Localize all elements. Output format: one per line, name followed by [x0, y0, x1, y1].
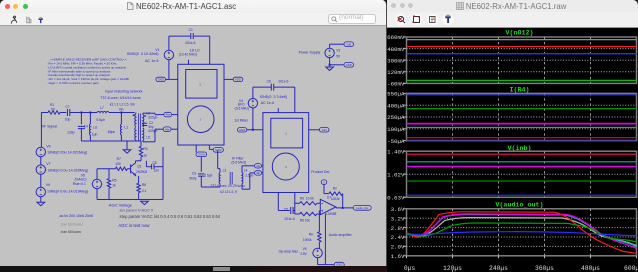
transistor Q1 [131, 161, 148, 176]
svg-text:0µs: 0µs [404, 265, 416, 272]
svg-text:Vdd: Vdd [322, 128, 327, 132]
svg-text:480mV: 480mV [387, 46, 405, 53]
svg-text:-Vagc > .6 VDC reduces receive: -Vagc > .6 VDC reduces receiver gain [48, 81, 99, 85]
wire [171, 128, 178, 130]
svg-text:0.1: 0.1 [142, 189, 147, 193]
svg-text:2.5µh: 2.5µh [204, 173, 212, 177]
svg-text:.tran 5000usec: .tran 5000usec [60, 223, 83, 227]
pane4 traces: V(audio_out) stepped family [407, 218, 637, 246]
wire [142, 141, 144, 142]
flag GND [156, 77, 166, 81]
resistor R2 [329, 187, 343, 202]
node junction [89, 112, 91, 114]
resistor R3 [295, 197, 317, 205]
svg-text:LM358: LM358 [327, 212, 337, 216]
flag node INb [163, 127, 171, 132]
svg-text:13n: 13n [153, 168, 159, 172]
svg-text:V: V [323, 182, 325, 184]
svg-text:-50µA: -50µA [387, 138, 405, 145]
svg-text:50: 50 [51, 108, 55, 112]
node junction [342, 207, 344, 209]
svg-text:R8: R8 [142, 183, 146, 187]
svg-text:20p: 20p [65, 118, 71, 122]
svg-text:300mV: 300mV [387, 57, 405, 64]
node junction [80, 112, 82, 114]
svg-text:SINE(0 .3 10.42e6): SINE(0 .3 10.42e6) [127, 52, 159, 56]
svg-text:R1: R1 [50, 103, 54, 107]
svg-text:660mV: 660mV [387, 34, 405, 41]
svg-text:1000k: 1000k [331, 197, 340, 201]
inductor L7 [97, 106, 110, 122]
svg-text:.001e-6: .001e-6 [284, 217, 295, 221]
voltage source V5 [73, 169, 102, 189]
capacitor C1 [185, 28, 196, 45]
svg-text:C1: C1 [189, 28, 193, 32]
wire [140, 157, 142, 161]
inductor L6 [89, 113, 97, 142]
svg-text:(10.42 MHz): (10.42 MHz) [179, 53, 197, 57]
svg-text:.ac lin 200 10e6 20e6: .ac lin 200 10e6 20e6 [59, 214, 93, 218]
svg-text:L6: L6 [93, 126, 97, 130]
svg-text:3.6V: 3.6V [391, 206, 405, 213]
svg-text:C4: C4 [84, 124, 88, 128]
svg-text:T37-6 core; 4/14/14 turns: T37-6 core; 4/14/14 turns [100, 96, 141, 100]
svg-text:L1: L1 [124, 126, 128, 130]
wire [330, 64, 344, 66]
svg-text:R4: R4 [143, 147, 147, 151]
flag node INc [255, 164, 262, 168]
pin stub [208, 145, 210, 149]
svg-text:C5: C5 [284, 207, 288, 211]
wire [200, 157, 202, 172]
svg-text:2N3904: 2N3904 [136, 170, 147, 174]
svg-text:1k: 1k [112, 184, 116, 188]
svg-text:OUTb: OUTb [215, 149, 222, 152]
voltage source V3 [325, 48, 341, 58]
capacitor C2 [142, 121, 154, 129]
flag Vdd [319, 128, 329, 133]
transformer winding L2 [135, 111, 158, 126]
svg-text:Rser=0.1: Rser=0.1 [73, 182, 86, 186]
svg-text:C6: C6 [267, 80, 271, 84]
pane2 grid [407, 93, 637, 140]
wire [209, 36, 211, 64]
wire [253, 86, 271, 88]
svg-text:Op-amp bias: Op-amp bias [279, 250, 299, 254]
svg-text:130p: 130p [67, 130, 75, 134]
svg-text:1st Mixer: 1st Mixer [234, 118, 249, 122]
capacitor C4 [67, 113, 88, 142]
svg-text:Input matching network: Input matching network [105, 89, 142, 93]
transformer secondary winding [143, 115, 144, 141]
op-amp U2 SA612 product detector block [263, 113, 309, 193]
comment: input matching network notes [100, 89, 142, 106]
svg-text:240µs: 240µs [489, 265, 508, 272]
wire [318, 214, 320, 232]
wire [200, 176, 202, 187]
wire [317, 202, 320, 204]
wire [217, 150, 219, 168]
svg-text:SINE(0 0.0u 14.020Meg): SINE(0 0.0u 14.020Meg) [48, 168, 89, 172]
flag node OUTa [196, 152, 207, 157]
wire [329, 58, 331, 67]
svg-text:560p: 560p [189, 177, 196, 181]
wire [70, 112, 97, 114]
svg-text:2.4V: 2.4V [391, 234, 405, 241]
resistor R5 [295, 212, 317, 222]
wire [138, 193, 140, 200]
wire [336, 207, 353, 209]
svg-text:VDD: VDD [235, 78, 241, 82]
wire [60, 112, 66, 114]
wire [146, 166, 151, 168]
svg-text:SINE(0 20u 14.021Meg): SINE(0 20u 14.021Meg) [48, 151, 88, 155]
svg-text:1k: 1k [143, 154, 147, 158]
phasing dot [133, 114, 135, 116]
comment text block: receiver description [48, 58, 129, 85]
svg-text:250µA: 250µA [387, 114, 405, 121]
pane1 traces: flat V(n012) steps [407, 39, 637, 41]
svg-text:.001e-6: .001e-6 [185, 41, 196, 45]
svg-text:k1 L1 L2 L5 .99: k1 L1 L2 L5 .99 [110, 102, 135, 106]
flag node Audio_Out [353, 205, 371, 210]
svg-text:.tran 600usec: .tran 600usec [60, 230, 81, 234]
resistor R7 [115, 157, 127, 171]
svg-text:600µs: 600µs [624, 265, 638, 272]
pin stub [188, 60, 190, 65]
svg-text:3.2V: 3.2V [391, 215, 405, 222]
wire [309, 129, 320, 131]
wire [323, 184, 325, 193]
svg-text:L4: L4 [244, 169, 248, 173]
transformer winding L5 [135, 128, 158, 141]
flag Vdd [344, 42, 354, 47]
svg-text:1: 1 [285, 165, 287, 169]
wire [241, 184, 243, 190]
svg-text:C8: C8 [152, 161, 156, 165]
capacitor C8 [152, 161, 159, 172]
comment 1st LO label [179, 49, 200, 57]
capacitor C5 [284, 207, 295, 221]
comment T37-6 core label [210, 184, 245, 194]
wire [262, 165, 263, 167]
wire [127, 168, 130, 170]
resistor R6 [303, 232, 321, 242]
svg-text:1: 1 [285, 132, 287, 136]
resistor R4 [139, 141, 147, 158]
wire [193, 35, 210, 37]
wire [96, 189, 98, 200]
resistor R5b [107, 169, 116, 188]
svg-text:2.8V: 2.8V [391, 225, 405, 232]
wire [162, 147, 164, 200]
wire [172, 114, 178, 116]
svg-text:k2 L3 L4 .9: k2 L3 L4 .9 [220, 190, 236, 194]
ground [141, 201, 149, 204]
transformer core [230, 172, 232, 184]
wire [109, 112, 135, 114]
svg-text:.625µh: .625µh [148, 115, 158, 119]
svg-text:GND: GND [346, 63, 352, 67]
svg-text:Vdd: Vdd [346, 42, 351, 46]
wire [247, 129, 263, 131]
svg-text:(5.6 MHz): (5.6 MHz) [231, 160, 246, 164]
svg-text:1000k: 1000k [303, 238, 312, 242]
svg-text:C7: C7 [66, 105, 70, 109]
wire [97, 168, 115, 170]
ground rail wire [81, 140, 141, 142]
svg-text:480µs: 480µs [581, 265, 600, 272]
svg-text:L5: L5 [146, 135, 150, 139]
svg-text:R7: R7 [117, 157, 121, 161]
svg-text:INb: INb [165, 127, 170, 131]
svg-text:R3: R3 [300, 197, 304, 201]
wire [252, 108, 254, 130]
svg-text:.65µh: .65µh [107, 130, 115, 134]
voltage source V6 bias [300, 247, 322, 258]
svg-text:Power Supply: Power Supply [299, 51, 321, 55]
capacitor C7 [65, 105, 71, 122]
flag GND [344, 63, 354, 68]
svg-text:2.5V: 2.5V [300, 252, 307, 256]
capacitor C6 [267, 80, 289, 91]
svg-text:L7: L7 [100, 106, 104, 110]
svg-text:Vin: Vin [119, 108, 124, 112]
svg-text:V7: V7 [46, 162, 50, 166]
wire [142, 113, 144, 114]
svg-text:V6: V6 [46, 145, 50, 149]
svg-text:.set param V-AGC 0: .set param V-AGC 0 [118, 208, 154, 213]
svg-text:5V: 5V [336, 55, 341, 59]
wire [135, 113, 137, 115]
wire [318, 242, 320, 248]
svg-text:1: 1 [199, 118, 201, 122]
svg-text:V9: V9 [46, 183, 50, 187]
flag GND [237, 128, 246, 132]
svg-text:5.5µh: 5.5µh [97, 118, 105, 122]
svg-text:(3.6 MHz): (3.6 MHz) [235, 106, 249, 110]
pane3 traces: flat V(inb) steps [407, 153, 637, 155]
node Vin [119, 108, 124, 114]
svg-text:1.6V: 1.6V [391, 253, 405, 260]
comment IF Filter label [231, 157, 246, 165]
svg-text:120mV: 120mV [387, 69, 405, 76]
right window: LTspice waveform viewer NE602-Rx-AM-T1-AGC1.raw [387, 0, 638, 272]
svg-text:100: 100 [115, 162, 121, 166]
wire [324, 213, 326, 264]
svg-text:SINE(0 .3 3.6e6): SINE(0 .3 3.6e6) [260, 95, 287, 99]
wire [169, 35, 191, 37]
wire [329, 44, 331, 48]
node junction [329, 64, 331, 66]
pane4 grid [407, 209, 637, 256]
wire [224, 78, 233, 80]
svg-text:Product Det.: Product Det. [311, 170, 330, 174]
dark strip under left window bottom [0, 266, 387, 272]
svg-text:0.63V: 0.63V [387, 195, 405, 202]
ground [123, 141, 131, 153]
signal source V9 [36, 174, 88, 196]
resistor R8 [137, 176, 147, 193]
voltage source V1 [127, 36, 174, 63]
op-amp U1 SA612 mixer block [178, 64, 224, 145]
svg-text:.001e-6: .001e-6 [278, 80, 289, 84]
signal source V7 [36, 157, 88, 175]
pane4 blue flat trace [407, 232, 637, 236]
node junction [252, 129, 254, 131]
wire [135, 140, 137, 141]
inductor L3 [204, 169, 226, 184]
svg-text:Audio amplifier: Audio amplifier [329, 233, 353, 237]
svg-text:1µh: 1µh [92, 132, 98, 136]
svg-text:2.0V: 2.0V [391, 244, 405, 251]
svg-text:T37-6 core; 20-29 turns: T37-6 core; 20-29 turns [210, 184, 245, 188]
ground [326, 67, 334, 70]
wire [274, 86, 295, 88]
svg-text:1.02V: 1.02V [387, 171, 405, 178]
svg-text:V(inb): V(inb) [507, 145, 531, 153]
svg-text:C3: C3 [192, 172, 196, 176]
svg-text:AGC in test now: AGC in test now [118, 223, 150, 228]
flag node INd [255, 171, 262, 175]
svg-text:400µA: 400µA [387, 102, 405, 109]
svg-text:R6: R6 [309, 232, 313, 236]
flag VDD [233, 77, 243, 81]
signal source V6 [36, 113, 87, 157]
phasing dot [144, 115, 146, 117]
wire [277, 193, 279, 211]
op-amp U7 [320, 196, 336, 216]
voltage source V4 BFO [235, 87, 287, 110]
pane1 grid [407, 37, 637, 83]
svg-text:.step param VAGC list 0 0.4 0.: .step param VAGC list 0 0.4 0.5 0.6 0.61… [118, 214, 220, 219]
svg-text:Q1: Q1 [137, 164, 142, 168]
pane3 grid [407, 151, 637, 197]
wire [241, 166, 243, 173]
svg-text:L3: L3 [223, 169, 227, 173]
flag VBB [321, 180, 327, 185]
left window: LTspice schematic NE602-Rx-AM-T1-AGC1.asc [0, 0, 387, 267]
svg-text:GND: GND [158, 78, 164, 82]
svg-text:RF Signal: RF Signal [42, 124, 58, 128]
svg-text:10.0k: 10.0k [306, 197, 314, 201]
svg-text:100µA: 100µA [387, 126, 405, 133]
wire [317, 258, 319, 265]
inductor L1 [107, 113, 128, 142]
svg-text:550µA: 550µA [387, 91, 405, 98]
ground [37, 197, 45, 206]
svg-text:AC 1e-6: AC 1e-6 [261, 101, 275, 105]
pin stub [195, 145, 197, 152]
svg-text:1.40V: 1.40V [387, 148, 405, 155]
svg-text:V6: V6 [303, 247, 307, 251]
transformer core [139, 114, 141, 141]
svg-text:1: 1 [199, 82, 201, 86]
svg-text:R5: R5 [112, 179, 116, 183]
svg-text:360µs: 360µs [535, 265, 554, 272]
wire [317, 213, 320, 215]
flag GND [334, 262, 344, 267]
resistor R1 [48, 103, 60, 114]
svg-text:-60mV: -60mV [387, 81, 405, 88]
wire [262, 172, 263, 174]
svg-text:GND: GND [239, 128, 245, 132]
svg-text:INa: INa [166, 113, 171, 117]
svg-text:SINE(0 0.0u 14.019Meg): SINE(0 0.0u 14.019Meg) [47, 189, 88, 193]
svg-text:R5 10k: R5 10k [300, 218, 311, 222]
svg-text:V3: V3 [336, 48, 340, 52]
wire [342, 194, 344, 208]
svg-text:AC 1e-6: AC 1e-6 [145, 59, 159, 63]
wire [168, 60, 170, 80]
flag node OUTb [213, 148, 223, 153]
wire [293, 210, 295, 212]
svg-text:R2: R2 [333, 187, 337, 191]
svg-text:OUTa: OUTa [198, 153, 205, 156]
flag node INa [164, 112, 172, 117]
capacitor C3 [189, 172, 204, 181]
wire [41, 112, 48, 114]
pane2 traces: flat I(R4) steps [407, 94, 637, 96]
svg-text:Audio_Out: Audio_Out [356, 206, 369, 210]
inductor L4 [242, 169, 254, 184]
pin stub [277, 108, 279, 112]
